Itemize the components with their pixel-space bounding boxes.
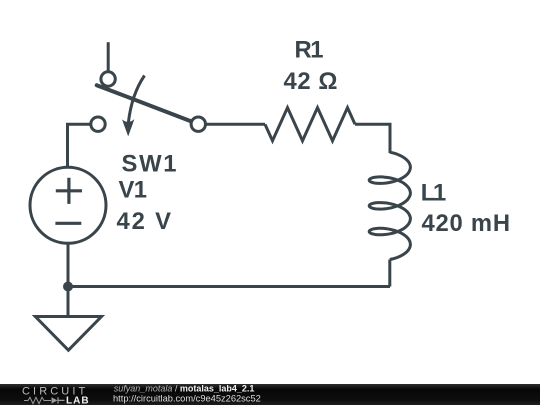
svg-text:http://circuitlab.com/c9e45z26: http://circuitlab.com/c9e45z262sc52 bbox=[113, 393, 261, 403]
svg-text:42 V: 42 V bbox=[117, 208, 172, 235]
switch SW1 right throw circle bbox=[191, 117, 205, 131]
svg-text:42 Ω: 42 Ω bbox=[284, 68, 338, 95]
wire: left circle to corner and down to V1 bbox=[68, 124, 91, 166]
footer logo diode bbox=[52, 397, 58, 403]
svg-text:V1: V1 bbox=[119, 177, 148, 204]
svg-text:L1: L1 bbox=[421, 180, 447, 207]
V1 minus sign bbox=[55, 222, 81, 225]
svg-text:R1: R1 bbox=[295, 37, 324, 64]
wire: bottom rail bbox=[68, 285, 390, 288]
switch SW1 top terminal circle bbox=[101, 72, 115, 86]
svg-text:420 mH: 420 mH bbox=[422, 210, 511, 237]
svg-text:SW1: SW1 bbox=[122, 151, 177, 178]
switch arrow head bbox=[122, 119, 134, 136]
wire: inductor bottom to rail bbox=[388, 260, 391, 287]
voltage source V1 circle bbox=[30, 167, 106, 243]
svg-text:sufyan_motala / motalas_lab4_2: sufyan_motala / motalas_lab4_2.1 bbox=[114, 383, 255, 393]
switch SW1 top throw stub bbox=[107, 42, 110, 71]
ground symbol triangle bbox=[35, 317, 101, 351]
footer logo squiggle resistor bbox=[24, 397, 51, 403]
switch SW1 actuator arc bbox=[128, 76, 144, 124]
wire: switch to resistor bbox=[206, 123, 266, 126]
wire: V1 bottom to junction bbox=[67, 243, 70, 286]
switch SW1 blade bbox=[97, 85, 191, 121]
inductor L1 coil bbox=[369, 152, 410, 259]
wire: junction to ground bbox=[67, 287, 70, 317]
V1 plus sign bbox=[56, 178, 82, 204]
svg-text:LAB: LAB bbox=[66, 395, 90, 405]
junction node dot bbox=[63, 282, 73, 292]
wire: resistor to inductor top corner bbox=[355, 124, 390, 153]
footer bar bbox=[0, 384, 540, 405]
resistor R1 zigzag bbox=[265, 108, 355, 141]
switch SW1 left pole circle bbox=[91, 117, 105, 131]
